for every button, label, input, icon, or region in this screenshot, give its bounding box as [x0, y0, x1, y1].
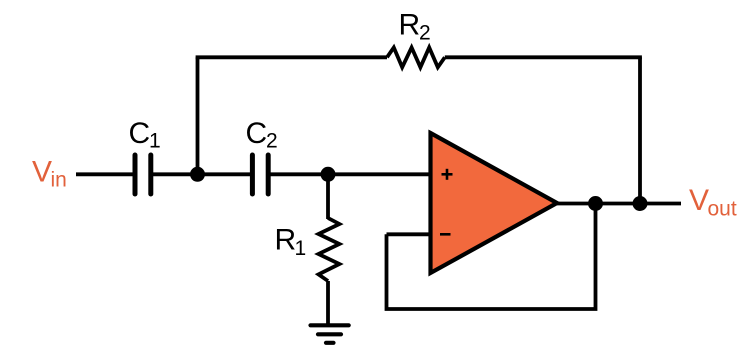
- svg-text:in: in: [51, 169, 67, 192]
- svg-text:2: 2: [266, 130, 278, 153]
- svg-text:2: 2: [419, 22, 431, 45]
- capacitor C2: [252, 155, 268, 194]
- node B junction dot: [321, 167, 336, 182]
- label C1: [129, 117, 161, 153]
- wire output: [556, 202, 681, 206]
- resistor R2: [387, 48, 445, 68]
- wire C1 to C2: [153, 172, 250, 176]
- wire feedback left vertical: [196, 57, 200, 174]
- node A junction dot: [190, 167, 205, 182]
- svg-text:1: 1: [295, 237, 307, 260]
- node Vout label: [689, 184, 737, 221]
- resistor R1: [319, 218, 340, 281]
- svg-text:R: R: [275, 224, 297, 257]
- wire input Vin to C1: [76, 172, 133, 176]
- wire top right segment: [445, 55, 642, 59]
- svg-text:R: R: [399, 9, 421, 42]
- svg-text:1: 1: [149, 130, 161, 153]
- wire right vertical to output: [638, 57, 642, 203]
- wire C2 to op-amp non-inverting input: [270, 172, 430, 176]
- wire top left segment: [196, 55, 387, 59]
- op-amp U1: [431, 133, 558, 273]
- wire inverting input: [387, 232, 431, 236]
- op-amp minus pin label: [440, 233, 451, 236]
- svg-text:V: V: [689, 184, 709, 217]
- svg-text:out: out: [708, 198, 737, 221]
- wire R1 to ground: [326, 281, 330, 324]
- op-amp plus pin label: [442, 169, 453, 180]
- node Vin label: [32, 156, 67, 192]
- svg-text:C: C: [246, 117, 268, 150]
- node C junction dot: [588, 196, 603, 211]
- ground: [311, 325, 349, 343]
- svg-text:C: C: [129, 117, 151, 150]
- svg-text:V: V: [32, 156, 52, 189]
- capacitor C1: [135, 155, 151, 194]
- wire feedback bottom loop: [387, 204, 596, 310]
- label R2: [399, 9, 431, 45]
- wire node B down to R1: [326, 174, 330, 219]
- label C2: [246, 117, 278, 153]
- node D junction dot: [633, 196, 648, 211]
- label R1: [275, 224, 307, 261]
